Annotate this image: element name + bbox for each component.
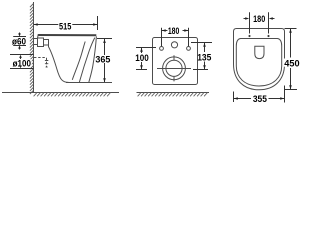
drain inner [166, 60, 182, 76]
dimension 180 (right) [244, 12, 275, 33]
floor line middle view [137, 92, 210, 94]
svg-text:355: 355 [253, 94, 267, 104]
inlet box 1 [38, 38, 44, 47]
inlet box 2 [44, 40, 49, 46]
toilet lid (thick top bar) [38, 34, 96, 36]
front outer curve F [89, 36, 97, 82]
body rectangle [153, 38, 198, 85]
svg-text:100: 100 [135, 53, 149, 63]
bowl bottom line [66, 82, 112, 84]
dimension 450 [285, 29, 298, 90]
floor line [2, 92, 119, 94]
bolt hole right [187, 47, 191, 51]
back lower edge [48, 45, 50, 47]
dimension 180 (middle) [162, 28, 189, 46]
dimension ø100 [10, 55, 34, 69]
outer outline [234, 29, 285, 90]
dimension ø60 [13, 33, 26, 50]
dimension 365 [97, 39, 112, 83]
bolt hole left [160, 47, 164, 51]
hidden drain pipe dashed [34, 57, 47, 59]
dimension 515 [34, 16, 98, 30]
svg-text:180: 180 [253, 14, 265, 24]
drain centerlines [157, 68, 191, 70]
dimension 135 (middle right) [191, 43, 212, 70]
lid back bump [37, 34, 40, 38]
front inner curve B2 [79, 38, 95, 83]
inner lid outline [236, 39, 281, 87]
floor hatch middle view [138, 93, 208, 97]
inlet pipe stubs [34, 39, 38, 45]
svg-text:180: 180 [168, 26, 180, 36]
floor hatch [34, 93, 111, 97]
wall [33, 2, 35, 93]
svg-text:ø60: ø60 [12, 37, 26, 47]
fixing hole marks [248, 35, 270, 38]
trap rear curve B1 [72, 42, 85, 80]
svg-text:ø100: ø100 [13, 58, 31, 68]
dimension 100 (middle left) [136, 48, 156, 70]
svg-text:135: 135 [197, 53, 211, 63]
dimension 355 [234, 86, 285, 103]
toilet profile [34, 34, 112, 82]
wall hatch [30, 4, 34, 95]
drain outer [163, 57, 186, 80]
svg-text:365: 365 [95, 55, 110, 65]
svg-text:515: 515 [59, 21, 71, 31]
inlet circle [171, 42, 177, 48]
svg-text:450: 450 [284, 58, 299, 68]
sump shield [255, 46, 264, 58]
bowl under curve A [49, 47, 69, 83]
